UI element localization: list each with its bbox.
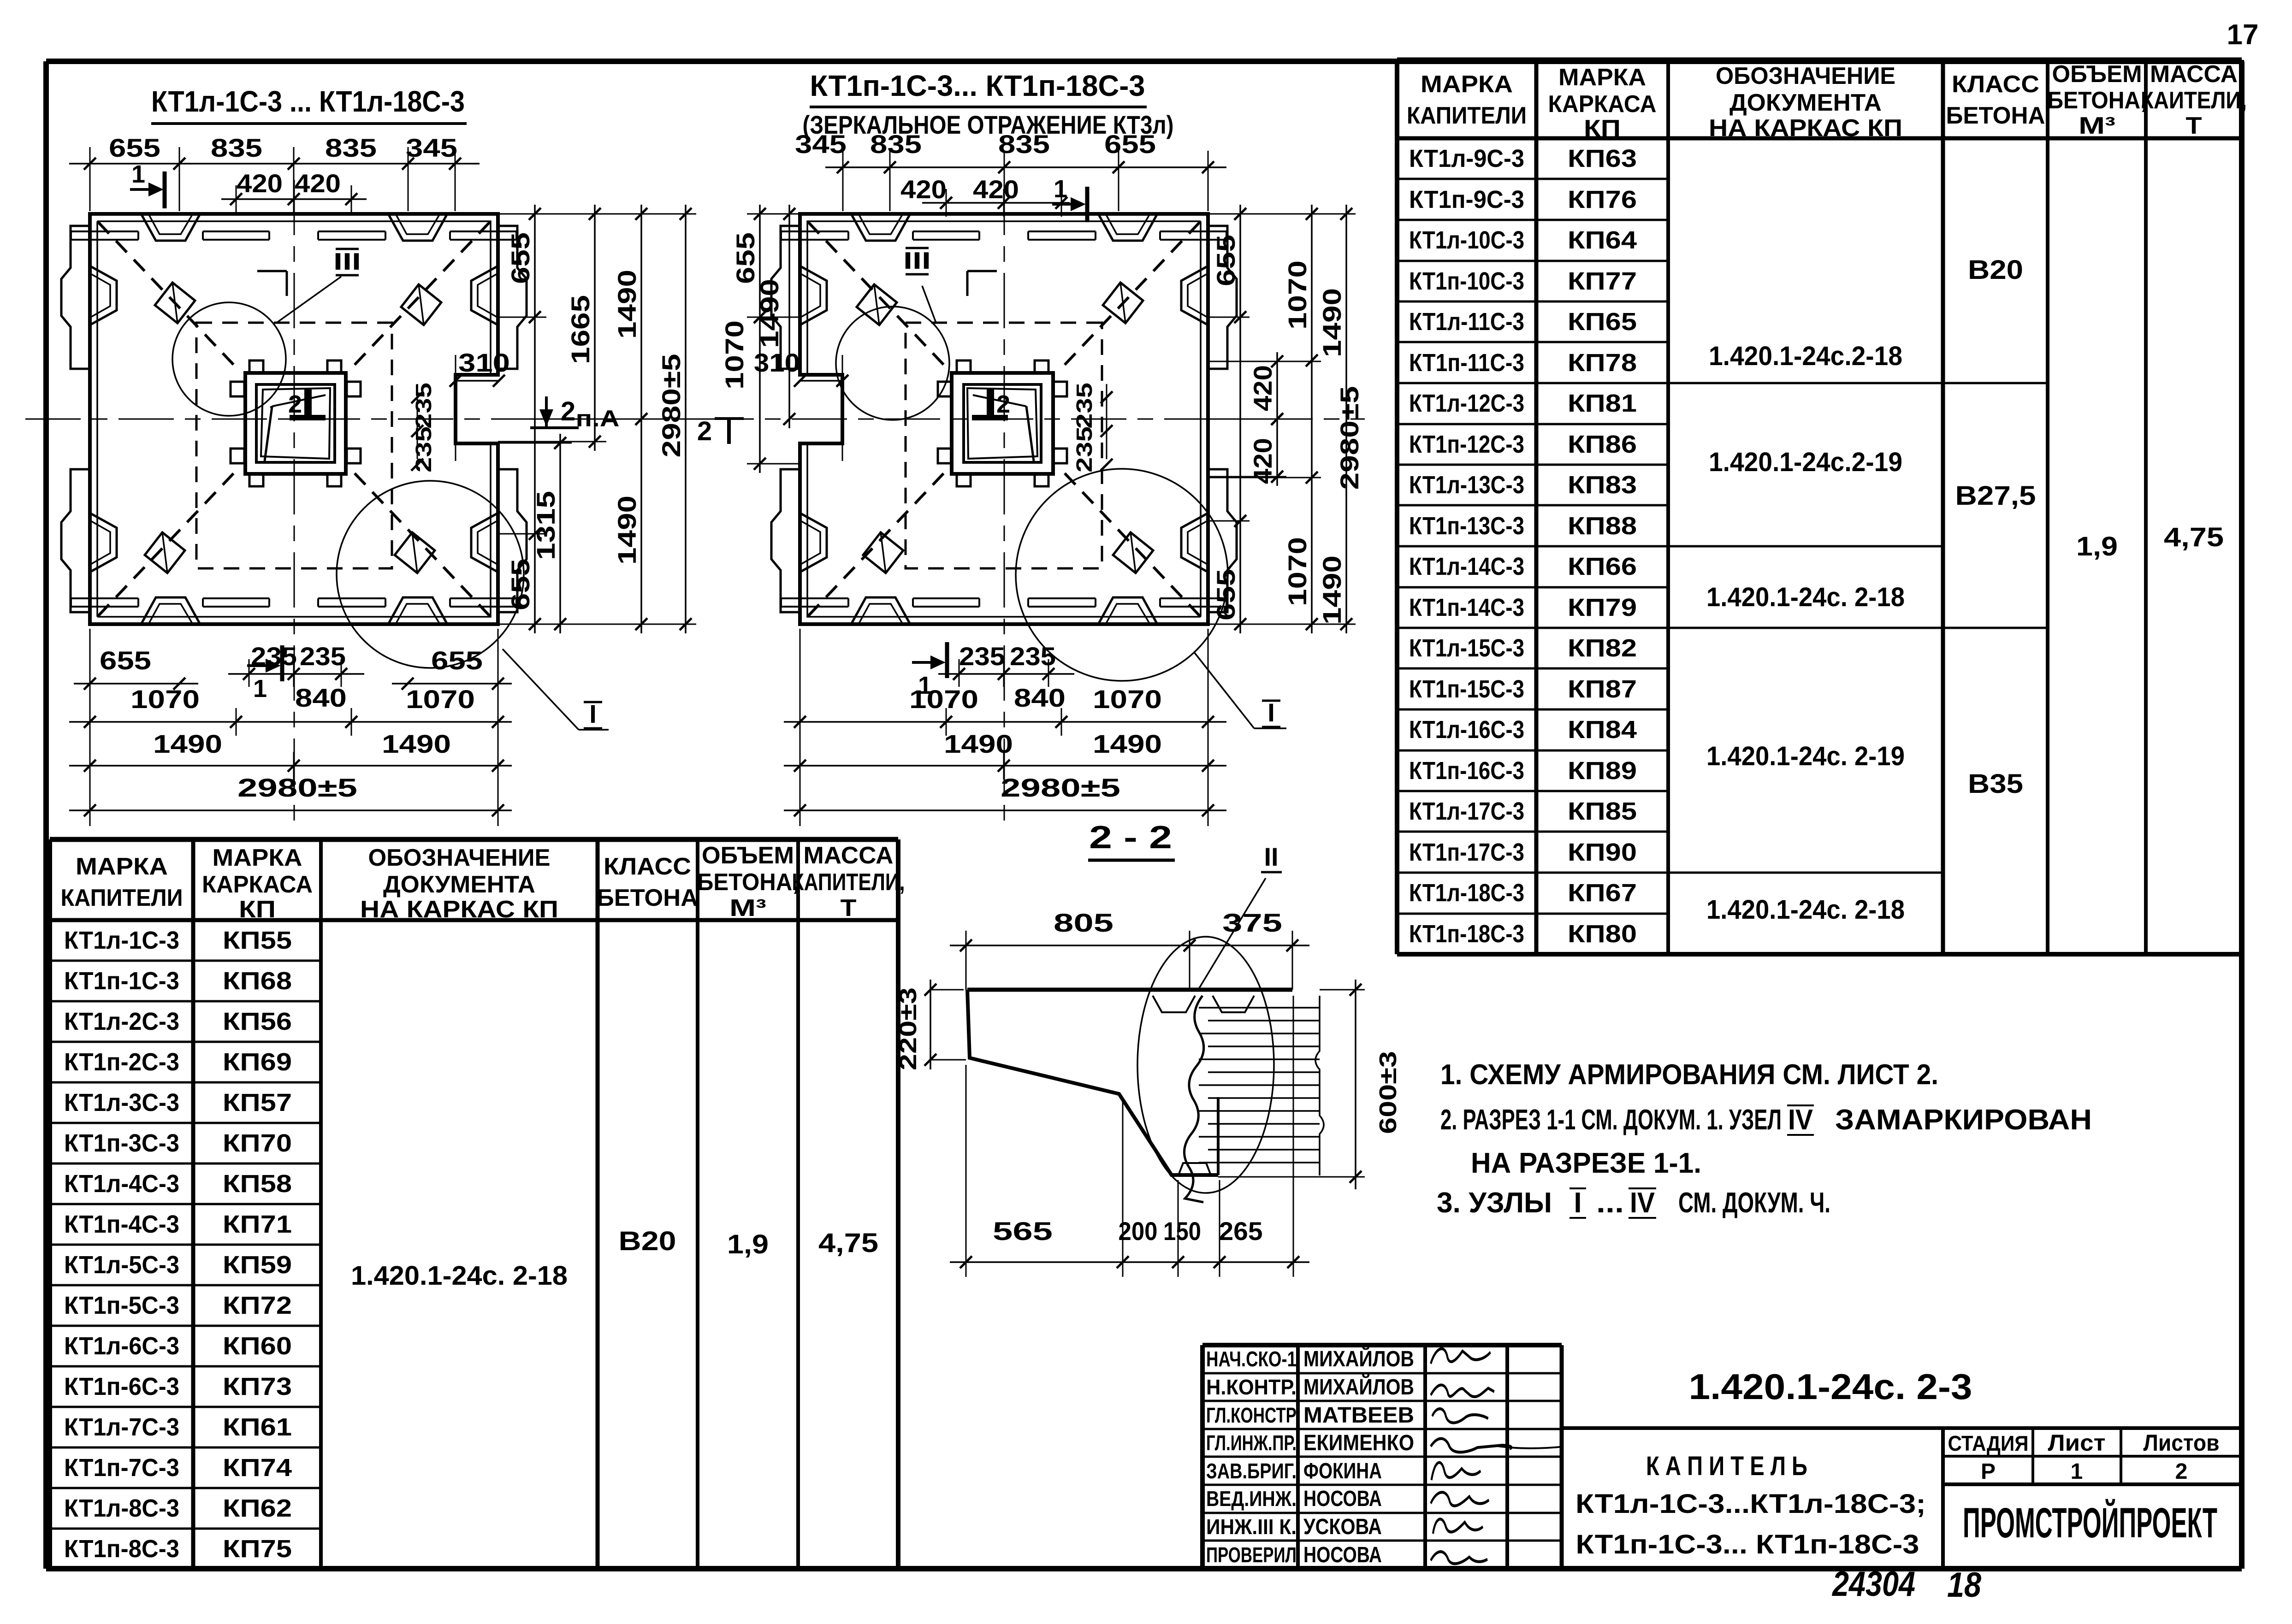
svg-text:НА РАЗРЕЗЕ 1-1.: НА РАЗРЕЗЕ 1-1. xyxy=(1471,1147,1701,1179)
plan centre column section xyxy=(245,373,346,474)
svg-text:БЕТОНА: БЕТОНА xyxy=(597,885,698,911)
svg-text:II: II xyxy=(1264,842,1278,871)
notes I/IV overbars xyxy=(1787,1104,1814,1106)
right table: row lines and marks xyxy=(1397,178,1668,180)
svg-text:1,9: 1,9 xyxy=(2076,531,2118,561)
svg-text:310: 310 xyxy=(458,348,510,377)
svg-text:КП57: КП57 xyxy=(223,1089,292,1116)
svg-text:КП88: КП88 xyxy=(1568,512,1637,540)
svg-text:1.420.1-24с.2-19: 1.420.1-24с.2-19 xyxy=(1709,447,1902,477)
svg-text:2: 2 xyxy=(996,390,1010,418)
svg-text:КП89: КП89 xyxy=(1568,757,1637,785)
svg-text:К А П И Т Е Л Ь: К А П И Т Е Л Ь xyxy=(1646,1451,1807,1481)
svg-text:345: 345 xyxy=(406,133,457,162)
svg-text:840: 840 xyxy=(1014,683,1066,712)
svg-text:835: 835 xyxy=(211,133,262,162)
svg-text:МАРКА: МАРКА xyxy=(1558,64,1646,91)
plan dashed pyramid square xyxy=(196,323,392,568)
circle III right plan xyxy=(836,307,949,420)
svg-text:805: 805 xyxy=(1054,908,1113,937)
right plan right-side dims xyxy=(1239,205,1241,633)
svg-text:835: 835 xyxy=(998,130,1050,159)
centre lines xyxy=(699,419,1365,420)
svg-text:1490: 1490 xyxy=(153,729,222,758)
svg-text:КТ1л-14С-3: КТ1л-14С-3 xyxy=(1409,553,1524,580)
svg-text:310: 310 xyxy=(754,348,800,377)
svg-text:КП: КП xyxy=(239,896,276,923)
svg-text:Т: Т xyxy=(2186,112,2202,139)
svg-text:2. РАЗРЕЗ 1-1 СМ. ДОКУМ. 1.: 2. РАЗРЕЗ 1-1 СМ. ДОКУМ. 1. УЗЕЛ xyxy=(1440,1104,1782,1136)
section profile xyxy=(967,988,1292,992)
svg-text:1. СХЕМУ АРМИРОВАНИЯ СМ. ЛИ: 1. СХЕМУ АРМИРОВАНИЯ СМ. ЛИСТ 2. xyxy=(1440,1059,1938,1091)
svg-text:ГЛ.КОНСТР: ГЛ.КОНСТР xyxy=(1206,1403,1297,1427)
column tabs xyxy=(1035,360,1048,373)
plan bottom/top inner plates xyxy=(71,230,138,232)
svg-text:КТ1п-17С-3: КТ1п-17С-3 xyxy=(1409,839,1524,866)
right table: concrete class cells xyxy=(1943,382,2048,384)
svg-text:655: 655 xyxy=(731,232,760,284)
svg-text:НОСОВА: НОСОВА xyxy=(1303,1487,1382,1511)
plan bottom/top inner plates xyxy=(1160,230,1226,232)
plan outline xyxy=(800,214,1208,624)
svg-text:4,75: 4,75 xyxy=(818,1228,878,1258)
svg-text:III: III xyxy=(903,248,931,274)
svg-text:1490: 1490 xyxy=(612,270,641,339)
svg-text:НА КАРКАС КП: НА КАРКАС КП xyxy=(1709,115,1902,142)
svg-text:1070: 1070 xyxy=(720,320,749,390)
svg-text:2980±5: 2980±5 xyxy=(237,773,357,802)
svg-text:ЗАВ.БРИГ.: ЗАВ.БРИГ. xyxy=(1206,1459,1297,1483)
svg-text:М³: М³ xyxy=(729,895,766,921)
svg-text:1.420.1-24с.2-18: 1.420.1-24с.2-18 xyxy=(1709,341,1902,371)
svg-text:КП87: КП87 xyxy=(1568,675,1637,703)
plan side outer bands xyxy=(1208,226,1237,369)
plan edge key slots xyxy=(141,214,200,241)
svg-text:КП75: КП75 xyxy=(223,1535,292,1563)
svg-text:150: 150 xyxy=(1163,1217,1201,1246)
gamma mark near top centre xyxy=(257,270,287,272)
svg-text:КТ1п-10С-3: КТ1п-10С-3 xyxy=(1409,267,1524,295)
svg-text:265: 265 xyxy=(1219,1217,1263,1246)
svg-text:IV: IV xyxy=(1630,1187,1655,1219)
svg-text:КАРКАСА: КАРКАСА xyxy=(1548,91,1657,118)
svg-text:КТ1л-5С-3: КТ1л-5С-3 xyxy=(64,1251,179,1279)
svg-text:КТ1л-16С-3: КТ1л-16С-3 xyxy=(1409,716,1524,744)
svg-text:375: 375 xyxy=(1222,908,1282,937)
svg-text:ОБЪЕМ: ОБЪЕМ xyxy=(702,842,794,869)
svg-text:Листов: Листов xyxy=(2144,1430,2220,1456)
svg-text:В35: В35 xyxy=(1968,769,2023,799)
svg-text:М³: М³ xyxy=(2079,112,2115,139)
svg-text:КЛАСС: КЛАСС xyxy=(604,853,691,880)
section hatched column xyxy=(1184,996,1203,1202)
svg-text:1.420.1-24с. 2-18: 1.420.1-24с. 2-18 xyxy=(1706,895,1905,925)
svg-text:ПРОМСТРОЙПРОЕКТ: ПРОМСТРОЙПРОЕКТ xyxy=(1963,1499,2217,1547)
svg-text:КТ1п-14С-3: КТ1п-14С-3 xyxy=(1409,594,1524,621)
svg-text:КТ1п-1С-3: КТ1п-1С-3 xyxy=(64,967,179,995)
svg-text:17: 17 xyxy=(2227,19,2259,51)
gamma mark near top centre xyxy=(967,270,997,272)
svg-text:565: 565 xyxy=(993,1217,1053,1246)
column fold line xyxy=(973,395,1027,407)
svg-text:НАЧ.СКО-1: НАЧ.СКО-1 xyxy=(1206,1347,1297,1371)
svg-text:655: 655 xyxy=(1211,235,1240,286)
svg-text:ДОКУМЕНТА: ДОКУМЕНТА xyxy=(1729,89,1882,116)
svg-text:КТ1п-16С-3: КТ1п-16С-3 xyxy=(1409,757,1524,785)
svg-text:СТАДИЯ: СТАДИЯ xyxy=(1948,1431,2029,1455)
left plan bottom dim chains xyxy=(74,683,198,685)
svg-text:КТ1п-18С-3: КТ1п-18С-3 xyxy=(1409,920,1524,948)
svg-text:МАРКА: МАРКА xyxy=(1421,71,1513,98)
svg-text:I: I xyxy=(1574,1187,1581,1219)
svg-text:МАРКА: МАРКА xyxy=(213,844,302,871)
svg-text:КТ1п-3С-3: КТ1п-3С-3 xyxy=(64,1129,179,1157)
svg-text:КАРКАСА: КАРКАСА xyxy=(202,871,313,898)
svg-text:КП59: КП59 xyxy=(223,1251,292,1279)
svg-text:2: 2 xyxy=(288,390,302,418)
circle I right plan xyxy=(1016,469,1228,681)
plan rotated anchor plates xyxy=(155,283,195,323)
svg-text:...: ... xyxy=(1596,1187,1624,1219)
svg-text:2: 2 xyxy=(2175,1459,2188,1484)
svg-text:1490: 1490 xyxy=(1317,555,1346,625)
svg-text:420: 420 xyxy=(237,169,283,198)
svg-text:1070: 1070 xyxy=(1283,537,1312,606)
circle I left plan xyxy=(337,481,524,668)
svg-text:КТ1п-1С-3... КТ1п-18С-3: КТ1п-1С-3... КТ1п-18С-3 xyxy=(1576,1530,1919,1559)
column fold line xyxy=(270,395,326,407)
svg-text:КТ1л-13С-3: КТ1л-13С-3 xyxy=(1409,471,1524,499)
svg-text:1315: 1315 xyxy=(531,491,560,560)
svg-text:220±3: 220±3 xyxy=(895,987,922,1070)
svg-text:КАПИТЕЛИ,: КАПИТЕЛИ, xyxy=(792,869,905,896)
svg-text:НА КАРКАС КП: НА КАРКАС КП xyxy=(360,896,558,923)
svg-text:КТ1п-7С-3: КТ1п-7С-3 xyxy=(64,1454,179,1482)
svg-text:КТ1л-15С-3: КТ1л-15С-3 xyxy=(1409,634,1524,662)
svg-text:ЗАМАРКИРОВАН: ЗАМАРКИРОВАН xyxy=(1835,1104,2092,1136)
svg-text:КАПИТЕЛИ: КАПИТЕЛИ xyxy=(61,885,183,911)
svg-text:В20: В20 xyxy=(619,1226,676,1256)
left plan top dimension chain xyxy=(69,163,480,165)
svg-text:КЛАСС: КЛАСС xyxy=(1952,71,2039,98)
right plan left-side dims xyxy=(759,205,761,473)
plan side outer bands xyxy=(61,226,90,369)
svg-text:КТ1л-6С-3: КТ1л-6С-3 xyxy=(64,1332,179,1360)
svg-text:18: 18 xyxy=(1947,1565,1982,1605)
svg-text:600±3: 600±3 xyxy=(1375,1051,1402,1134)
svg-text:КП62: КП62 xyxy=(223,1494,292,1522)
svg-text:ВЕД.ИНЖ.: ВЕД.ИНЖ. xyxy=(1206,1487,1297,1511)
svg-text:655: 655 xyxy=(109,133,160,162)
svg-text:КТ1л-12С-3: КТ1л-12С-3 xyxy=(1409,390,1524,417)
centre lines xyxy=(25,419,712,420)
svg-text:КТ1п-6С-3: КТ1п-6С-3 xyxy=(64,1373,179,1400)
svg-text:КП79: КП79 xyxy=(1568,594,1637,621)
right plan top dims xyxy=(825,166,1226,168)
svg-text:БЕТОНА: БЕТОНА xyxy=(1946,102,2045,129)
svg-text:ГЛ.ИНЖ.ПР.: ГЛ.ИНЖ.ПР. xyxy=(1206,1431,1297,1455)
svg-text:МАССА: МАССА xyxy=(804,842,894,869)
svg-text:1.420.1-24с. 2-18: 1.420.1-24с. 2-18 xyxy=(351,1261,568,1291)
svg-text:3. УЗЛЫ: 3. УЗЛЫ xyxy=(1437,1187,1552,1219)
svg-text:КТ1п-2С-3: КТ1п-2С-3 xyxy=(64,1048,179,1076)
svg-text:КТ1л-2С-3: КТ1л-2С-3 xyxy=(64,1008,179,1035)
svg-text:420: 420 xyxy=(1248,365,1277,411)
svg-text:КТ1л-1С-3 ... КТ1л-18С-3: КТ1л-1С-3 ... КТ1л-18С-3 xyxy=(151,85,465,118)
svg-text:420: 420 xyxy=(295,169,341,198)
svg-text:655: 655 xyxy=(431,646,483,675)
svg-text:1: 1 xyxy=(1054,175,1067,203)
svg-text:УСКОВА: УСКОВА xyxy=(1303,1515,1382,1539)
plan dashed pyramid square xyxy=(906,323,1102,568)
svg-text:КП85: КП85 xyxy=(1568,797,1637,825)
svg-text:200: 200 xyxy=(1119,1217,1158,1246)
п.А mark xyxy=(530,426,579,429)
svg-text:655: 655 xyxy=(100,646,151,675)
svg-text:КТ1п-9С-3: КТ1п-9С-3 xyxy=(1409,186,1524,213)
section mark 2 inside column xyxy=(987,390,994,416)
svg-text:КТ1п-1С-3... КТ1п-18С-3: КТ1п-1С-3... КТ1п-18С-3 xyxy=(810,69,1145,102)
title block rows xyxy=(1202,1372,1562,1375)
plan dashed diagonals xyxy=(1060,222,1200,369)
svg-text:2 - 2: 2 - 2 xyxy=(1089,819,1172,855)
svg-text:КП74: КП74 xyxy=(223,1454,292,1482)
section mark 2 inside column xyxy=(304,390,312,416)
svg-text:КП56: КП56 xyxy=(223,1008,292,1035)
svg-text:КТ1п-11С-3: КТ1п-11С-3 xyxy=(1409,349,1524,377)
section key trapezoids xyxy=(1153,996,1195,1012)
svg-text:ФОКИНА: ФОКИНА xyxy=(1303,1459,1382,1483)
svg-text:835: 835 xyxy=(325,133,377,162)
svg-text:БЕТОНА,: БЕТОНА, xyxy=(697,869,799,896)
svg-text:КТ1л-8С-3: КТ1л-8С-3 xyxy=(64,1494,179,1522)
svg-text:345: 345 xyxy=(795,130,847,159)
right table: frame xyxy=(1395,60,1399,954)
svg-text:КП82: КП82 xyxy=(1568,634,1637,662)
svg-text:КП73: КП73 xyxy=(223,1373,292,1400)
section bottom dims xyxy=(950,1261,1309,1263)
svg-text:1.420.1-24с. 2-3: 1.420.1-24с. 2-3 xyxy=(1689,1366,1972,1407)
svg-text:2980±5: 2980±5 xyxy=(1001,773,1120,802)
svg-text:2980±5: 2980±5 xyxy=(657,354,686,458)
svg-text:КТ1л-4С-3: КТ1л-4С-3 xyxy=(64,1170,179,1198)
svg-text:235: 235 xyxy=(1072,426,1097,472)
svg-text:МАТВЕЕВ: МАТВЕЕВ xyxy=(1303,1403,1414,1428)
svg-text:КП90: КП90 xyxy=(1568,839,1637,866)
svg-text:КП81: КП81 xyxy=(1568,390,1637,417)
стадия лист листов xyxy=(1941,1428,1945,1569)
title block right part xyxy=(1560,1345,1564,1569)
svg-text:КТ1п-12С-3: КТ1п-12С-3 xyxy=(1409,431,1524,458)
svg-text:420: 420 xyxy=(900,175,947,204)
svg-text:КП77: КП77 xyxy=(1568,267,1637,295)
svg-text:835: 835 xyxy=(870,130,922,159)
svg-text:КП71: КП71 xyxy=(223,1211,292,1238)
svg-text:Лист: Лист xyxy=(2048,1430,2106,1456)
svg-text:1070: 1070 xyxy=(1093,685,1162,714)
plan edge key slots xyxy=(1098,214,1157,241)
svg-text:КТ1п-8С-3: КТ1п-8С-3 xyxy=(64,1535,179,1563)
svg-text:СМ. ДОКУМ. Ч.: СМ. ДОКУМ. Ч. xyxy=(1678,1187,1830,1219)
plan outline xyxy=(90,214,498,624)
svg-text:1490: 1490 xyxy=(944,729,1013,758)
svg-text:КТ1л-7С-3: КТ1л-7С-3 xyxy=(64,1413,179,1441)
plan inner wall line xyxy=(97,221,491,374)
svg-text:КАИТЕЛИ,: КАИТЕЛИ, xyxy=(2141,87,2247,114)
svg-text:ОБОЗНАЧЕНИЕ: ОБОЗНАЧЕНИЕ xyxy=(1716,63,1895,89)
left table: frame xyxy=(47,839,52,1569)
left plan horizontal extension lines to right dims xyxy=(498,213,696,215)
svg-text:ИНЖ.III К.: ИНЖ.III К. xyxy=(1206,1515,1297,1539)
section 600 dim xyxy=(1355,980,1356,1189)
svg-text:КТ1п-15С-3: КТ1п-15С-3 xyxy=(1409,675,1524,703)
svg-text:I: I xyxy=(589,699,597,728)
svg-text:4,75: 4,75 xyxy=(2164,522,2224,552)
svg-text:КП80: КП80 xyxy=(1568,920,1637,948)
svg-text:1490: 1490 xyxy=(1317,288,1346,357)
svg-text:235: 235 xyxy=(251,642,297,671)
svg-text:КП55: КП55 xyxy=(223,927,292,954)
svg-text:1070: 1070 xyxy=(130,685,200,714)
svg-text:КТ1л-9С-3: КТ1л-9С-3 xyxy=(1409,145,1524,172)
svg-text:ДОКУМЕНТА: ДОКУМЕНТА xyxy=(383,871,535,898)
plan rotated anchor plates xyxy=(1103,283,1143,323)
svg-text:1,9: 1,9 xyxy=(727,1229,769,1259)
svg-text:КТ1п-13С-3: КТ1п-13С-3 xyxy=(1409,512,1524,540)
svg-text:КП64: КП64 xyxy=(1568,226,1637,254)
svg-text:655: 655 xyxy=(506,232,535,284)
svg-text:КП: КП xyxy=(1584,115,1621,142)
svg-text:КП86: КП86 xyxy=(1568,431,1637,458)
svg-text:КП78: КП78 xyxy=(1568,349,1637,377)
svg-text:1490: 1490 xyxy=(612,496,641,565)
page border frame xyxy=(46,59,2242,64)
svg-text:КП60: КП60 xyxy=(223,1332,292,1360)
svg-text:КП63: КП63 xyxy=(1568,145,1637,172)
svg-text:КТ1п-4С-3: КТ1п-4С-3 xyxy=(64,1211,179,1238)
svg-text:1.420.1-24с. 2-19: 1.420.1-24с. 2-19 xyxy=(1706,741,1905,771)
svg-text:ОБОЗНАЧЕНИЕ: ОБОЗНАЧЕНИЕ xyxy=(368,844,551,871)
svg-text:КТ1л-1С-3...КТ1л-18С-3;: КТ1л-1С-3...КТ1л-18С-3; xyxy=(1575,1489,1926,1519)
section callout ellipse II xyxy=(1137,937,1274,1193)
svg-text:840: 840 xyxy=(295,683,347,712)
svg-text:ПРОВЕРИЛ: ПРОВЕРИЛ xyxy=(1206,1543,1297,1567)
signatures xyxy=(1431,1349,1491,1364)
svg-text:1490: 1490 xyxy=(1093,729,1162,758)
svg-text:МИХАЙЛОВ: МИХАЙЛОВ xyxy=(1303,1374,1414,1400)
svg-text:КП69: КП69 xyxy=(223,1048,292,1076)
plan centre column section xyxy=(952,373,1053,474)
svg-text:БЕТОНА,: БЕТОНА, xyxy=(2048,87,2147,114)
svg-text:КТ1л-18С-3: КТ1л-18С-3 xyxy=(1409,879,1524,907)
svg-text:235: 235 xyxy=(412,383,436,429)
column tabs xyxy=(249,360,263,373)
svg-text:IV: IV xyxy=(1788,1104,1813,1136)
svg-text:1.420.1-24с. 2-18: 1.420.1-24с. 2-18 xyxy=(1706,582,1905,612)
svg-text:2980±5: 2980±5 xyxy=(1335,386,1364,490)
svg-text:КТ1л-11С-3: КТ1л-11С-3 xyxy=(1409,308,1524,336)
svg-text:420: 420 xyxy=(973,175,1019,204)
svg-text:235: 235 xyxy=(1072,383,1097,429)
svg-text:КТ1л-3С-3: КТ1л-3С-3 xyxy=(64,1089,179,1116)
svg-text:Н.КОНТР.: Н.КОНТР. xyxy=(1206,1375,1297,1399)
svg-text:1490: 1490 xyxy=(755,279,784,348)
svg-text:2: 2 xyxy=(561,396,575,426)
svg-text:КП67: КП67 xyxy=(1568,879,1637,907)
plan dashed diagonals xyxy=(98,222,238,369)
svg-text:1: 1 xyxy=(131,160,145,188)
svg-text:1665: 1665 xyxy=(566,295,595,364)
svg-text:1070: 1070 xyxy=(406,685,475,714)
svg-text:24304: 24304 xyxy=(1831,1565,1915,1604)
svg-text:655: 655 xyxy=(1104,130,1156,159)
section right break xyxy=(1315,996,1324,1175)
circle III left plan xyxy=(172,302,286,416)
svg-text:ОБЪЕМ: ОБЪЕМ xyxy=(2052,61,2142,88)
svg-text:235: 235 xyxy=(959,642,1005,671)
svg-text:Т: Т xyxy=(841,895,857,921)
svg-text:ЕКИМЕНКО: ЕКИМЕНКО xyxy=(1303,1431,1414,1455)
svg-text:1: 1 xyxy=(253,675,267,703)
svg-text:В27,5: В27,5 xyxy=(1955,481,2036,511)
svg-text:МИХАЙЛОВ: МИХАЙЛОВ xyxy=(1303,1346,1414,1371)
svg-text:КП84: КП84 xyxy=(1568,716,1637,744)
svg-text:КП58: КП58 xyxy=(223,1170,292,1198)
svg-text:КТ1п-5С-3: КТ1п-5С-3 xyxy=(64,1292,179,1319)
svg-text:п.А: п.А xyxy=(576,406,620,431)
svg-text:1070: 1070 xyxy=(1283,260,1312,330)
svg-text:МАРКА: МАРКА xyxy=(76,853,168,880)
section top dims xyxy=(950,945,1309,946)
svg-text:1490: 1490 xyxy=(382,729,451,758)
svg-text:НОСОВА: НОСОВА xyxy=(1303,1543,1382,1567)
svg-text:КАПИТЕЛИ: КАПИТЕЛИ xyxy=(1407,102,1527,129)
svg-text:КП61: КП61 xyxy=(223,1413,292,1441)
svg-text:2: 2 xyxy=(697,416,712,446)
svg-text:КП68: КП68 xyxy=(223,967,292,995)
svg-text:1070: 1070 xyxy=(909,685,978,714)
svg-text:I: I xyxy=(1267,698,1275,727)
left plan right-side dim lines xyxy=(534,205,536,633)
svg-text:КП65: КП65 xyxy=(1568,308,1637,336)
plan inner wall line xyxy=(807,221,1201,374)
svg-text:Р: Р xyxy=(1981,1459,1996,1484)
svg-text:КТ1л-17С-3: КТ1л-17С-3 xyxy=(1409,797,1524,825)
svg-text:КП72: КП72 xyxy=(223,1292,292,1319)
svg-text:655: 655 xyxy=(506,559,535,610)
svg-text:КП83: КП83 xyxy=(1568,471,1637,499)
right table: merged document cells xyxy=(1668,382,1943,384)
right plan bottom dims xyxy=(784,721,1226,723)
svg-text:III: III xyxy=(333,248,361,275)
svg-text:1: 1 xyxy=(2071,1459,2083,1484)
svg-text:КП76: КП76 xyxy=(1568,186,1637,213)
svg-text:МАССА: МАССА xyxy=(2150,61,2238,88)
svg-text:235: 235 xyxy=(300,642,346,671)
svg-text:КП70: КП70 xyxy=(223,1129,292,1157)
left table: rows xyxy=(50,960,321,962)
svg-text:КТ1л-1С-3: КТ1л-1С-3 xyxy=(64,927,179,954)
svg-text:В20: В20 xyxy=(1968,255,2023,285)
svg-text:КТ1л-10С-3: КТ1л-10С-3 xyxy=(1409,226,1524,254)
svg-text:КП66: КП66 xyxy=(1568,553,1637,580)
